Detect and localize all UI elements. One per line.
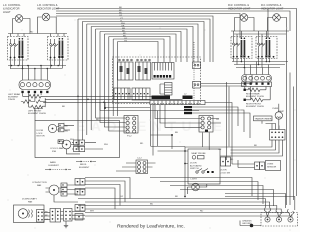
connector strip left oven — [19, 80, 51, 90]
wire oven light leads — [188, 184, 207, 194]
svg-text:WH: WH — [90, 211, 94, 213]
svg-text:LEFT REAR: LEFT REAR — [8, 93, 20, 96]
svg-text:BAKE: BAKE — [50, 161, 56, 164]
wires below right blocks — [232, 58, 288, 68]
svg-text:2350W: 2350W — [8, 99, 16, 101]
relay box 1 — [118, 62, 134, 80]
svg-text:MOTOR: MOTOR — [37, 136, 46, 138]
left edge connector 2 — [75, 189, 85, 196]
wire horizontal right y31 — [231, 30, 289, 32]
label stack small boxes — [184, 106, 192, 114]
wire element leads to board — [43, 96, 182, 102]
wire fan bracket 8 — [109, 37, 170, 132]
svg-text:ELEMENT 1500W: ELEMENT 1500W — [28, 113, 47, 115]
transformer connector block — [270, 130, 286, 141]
wires terminal rows under left blocks — [8, 58, 66, 69]
resistor left rear element — [23, 93, 47, 98]
connector pair mid-left upper — [74, 140, 85, 145]
svg-text:DOOR: DOOR — [37, 130, 44, 132]
control board dashed outline — [113, 57, 201, 104]
convection fan connector — [61, 183, 67, 196]
connector box A — [114, 88, 130, 100]
down draft fan assembly — [14, 205, 45, 223]
svg-text:DOWN DRAFT: DOWN DRAFT — [22, 198, 37, 201]
wire label smudges — [62, 94, 257, 213]
svg-text:& INDICATOR: & INDICATOR — [3, 6, 20, 10]
svg-text:R.R. CONTROL &: R.R. CONTROL & — [228, 3, 249, 7]
svg-text:ELEMENT: ELEMENT — [49, 165, 60, 167]
door lock motor connectors — [59, 124, 69, 133]
terminal squares under strip — [21, 91, 48, 93]
svg-text:LIGHT: LIGHT — [191, 179, 198, 181]
infinite switch R.R. — [231, 37, 252, 59]
wires mid-left connectors — [72, 143, 103, 149]
bottom bus line 1 — [78, 199, 265, 208]
relay box 2 — [136, 62, 151, 80]
wires transformer block down — [185, 140, 283, 156]
svg-text:BU: BU — [65, 130, 68, 132]
wires oven sensor — [232, 120, 255, 168]
label left front element — [28, 111, 47, 116]
wire color labels column — [30, 7, 128, 42]
junction dots below right blocks — [241, 61, 271, 69]
svg-text:GY: GY — [119, 15, 123, 17]
wires convection fan — [54, 185, 85, 202]
indicator lamp L.F. — [13, 15, 27, 23]
wire fan bracket 10 — [118, 42, 158, 117]
label cooling fan — [50, 147, 64, 153]
wires from lower P box — [201, 75, 253, 87]
svg-text:FAN: FAN — [28, 200, 33, 203]
bottom bus line 3 — [78, 206, 277, 209]
svg-text:CONVECTION: CONVECTION — [32, 182, 47, 184]
wires C-12 — [116, 163, 156, 171]
svg-text:RD: RD — [230, 159, 234, 161]
connector box B — [132, 88, 150, 100]
bottom bus line 5 — [85, 212, 288, 215]
right strip lower row — [242, 82, 272, 87]
wire bus line 1 — [56, 9, 297, 61]
wire cluster fanout lines — [192, 103, 225, 114]
bottom bus line 2 — [85, 202, 270, 208]
svg-text:TN: TN — [124, 40, 127, 42]
right staircase wires — [225, 178, 295, 211]
svg-text:BU: BU — [175, 132, 178, 134]
resistor right front element — [246, 87, 270, 102]
strain loop N — [276, 209, 282, 218]
connector P1-1 — [199, 116, 213, 133]
wire fan bracket 5 — [96, 29, 187, 118]
svg-text:FAN: FAN — [37, 184, 42, 187]
wires lower mid-left corners — [85, 178, 130, 210]
svg-text:RD: RD — [140, 143, 144, 145]
oven sensor boxes — [255, 162, 265, 170]
svg-text:L.R. CONTROL &: L.R. CONTROL & — [37, 3, 58, 7]
junction dots on element leads — [77, 96, 106, 110]
resistor left front element — [29, 93, 46, 109]
terminal block dashed box — [261, 213, 298, 227]
svg-text:SWITCH: SWITCH — [190, 168, 199, 170]
svg-text:R.F. CONTROL &: R.F. CONTROL & — [261, 3, 282, 7]
svg-text:OR: OR — [218, 149, 222, 151]
svg-text:RIGHT REAR: RIGHT REAR — [246, 93, 260, 96]
small box P right upper — [193, 62, 201, 69]
svg-text:SENSOR: SENSOR — [267, 166, 277, 168]
wires down draft to bus — [44, 212, 85, 220]
resistor right rear element — [245, 87, 266, 92]
chassis ground — [240, 220, 261, 228]
wire horizontal y33.5 — [8, 33, 67, 35]
svg-text:DOOR: DOOR — [220, 170, 227, 172]
cooling fan connector — [58, 140, 64, 144]
indicator lamp R.F. — [270, 14, 284, 22]
svg-text:WH: WH — [104, 144, 108, 146]
wires right strip feeders — [245, 62, 269, 75]
terminal strip long — [150, 101, 205, 105]
coil element stack — [160, 83, 172, 96]
comb connector — [152, 63, 174, 80]
label R.R. control — [228, 3, 251, 10]
svg-text:ELEMENT: ELEMENT — [79, 167, 90, 169]
wire fan bracket 1 — [78, 19, 210, 150]
junction dots meat probe — [171, 134, 186, 197]
wires into P1-1 — [155, 116, 221, 150]
oven cavity box — [35, 121, 120, 158]
cooling fan motor — [62, 140, 71, 149]
terminal square right front — [244, 99, 246, 101]
left edge connector 1 — [75, 179, 85, 186]
svg-text:LOCK: LOCK — [37, 133, 43, 135]
svg-text:ELEMENT 1500W: ELEMENT 1500W — [246, 106, 265, 108]
door lock switch connectors — [220, 157, 231, 174]
wire drops into switch blocks — [11, 34, 65, 37]
wires mid horizontals lower — [100, 102, 199, 155]
svg-text:GROUND: GROUND — [242, 223, 252, 225]
wire fan bracket 3 — [87, 24, 198, 135]
terminal L2 — [288, 217, 293, 222]
wires transformer block up — [262, 121, 279, 130]
svg-text:LIGHT: LIGHT — [3, 10, 11, 14]
wire fan bracket 9 — [113, 39, 164, 116]
terminal L1 — [265, 217, 270, 222]
svg-text:GY: GY — [216, 119, 220, 121]
bake element — [45, 161, 71, 170]
connector P1-2 — [124, 116, 138, 138]
wires door lock motor — [57, 125, 74, 130]
relay terminal circles — [119, 59, 151, 61]
wire bus line 3 — [56, 14, 240, 39]
wires cluster to lower right — [225, 103, 250, 139]
wire lamp leads right section — [234, 18, 287, 35]
door lock motor — [48, 124, 56, 132]
wire lamp leads left section — [13, 17, 57, 34]
wire drops into right blocks — [234, 31, 267, 39]
junction dots left rows — [11, 65, 59, 70]
svg-text:BROIL: BROIL — [80, 164, 87, 166]
infinite switch L.R. — [48, 37, 69, 61]
indicator lamp R.R. — [238, 14, 252, 22]
label R.F. control — [261, 3, 284, 10]
wires cooling fan — [59, 141, 81, 154]
down draft fan internal connector — [37, 210, 45, 223]
label door lock motor — [37, 130, 46, 138]
strain loop L1 — [265, 208, 271, 217]
wire fan bracket 7 — [104, 34, 176, 127]
oven sensor — [266, 161, 281, 171]
wire oven lamp — [278, 104, 280, 130]
indicator lamp L.R. — [40, 13, 54, 21]
svg-text:OVEN: OVEN — [272, 108, 279, 110]
label L.R. control — [37, 3, 60, 10]
meat probe box — [188, 149, 220, 184]
wires left connector risers — [23, 66, 48, 81]
convection fan motor — [46, 185, 60, 195]
svg-text:WH: WH — [70, 139, 74, 141]
down draft external connector — [50, 209, 61, 223]
filled bar 1 — [152, 96, 171, 100]
label right rear element — [246, 93, 265, 99]
infinite switch L.F. — [8, 37, 29, 61]
wire fan bracket 4 — [91, 27, 193, 131]
small box P right lower — [193, 82, 201, 89]
wire bus line 2 — [56, 11, 290, 31]
svg-text:LOCK SW: LOCK SW — [220, 172, 231, 174]
bottom bus line 6 — [85, 215, 293, 217]
wire bus line 4 — [56, 16, 213, 62]
infinite switch R.F. — [256, 37, 277, 59]
left edge connector 3 — [75, 205, 85, 212]
wires right section drops — [227, 82, 257, 160]
down draft connector 2 — [64, 209, 73, 222]
svg-text:P1-2: P1-2 — [127, 136, 132, 138]
wires terminals up feed — [268, 215, 291, 218]
wire labels down draft — [45, 212, 49, 221]
svg-text:MEAT PROBE: MEAT PROBE — [192, 152, 207, 155]
svg-text:COOL'G FAN: COOL'G FAN — [50, 147, 64, 150]
svg-text:GY: GY — [120, 196, 124, 198]
bottom bus line 4 — [85, 209, 281, 211]
svg-text:RD: RD — [200, 211, 204, 213]
svg-text:OVEN: OVEN — [267, 164, 274, 166]
svg-text:BU: BU — [150, 204, 153, 206]
svg-text:ACTUATED: ACTUATED — [190, 164, 202, 167]
label transformer — [254, 116, 273, 121]
svg-text:L.F. CONTROL: L.F. CONTROL — [3, 3, 21, 7]
label L.F. control — [3, 3, 21, 14]
ground down draft — [64, 221, 68, 228]
svg-text:F5B: F5B — [52, 151, 57, 153]
terminal N — [276, 217, 281, 222]
svg-text:RD: RD — [30, 32, 34, 34]
right edge bus — [287, 31, 297, 205]
oven lamp — [272, 108, 284, 119]
filled bar 2 — [183, 96, 193, 100]
label right front element — [246, 104, 265, 109]
left edge connector 4 — [75, 214, 83, 221]
strain loop L2 — [288, 209, 294, 217]
label convection fan — [32, 182, 47, 187]
dashed vertical center — [193, 42, 195, 100]
svg-text:TRANSFORMER: TRANSFORMER — [255, 118, 272, 121]
label down draft fan — [22, 198, 37, 204]
connector pair mid-left lower — [74, 146, 85, 151]
svg-text:ELEMENT 2100W: ELEMENT 2100W — [246, 96, 265, 98]
oven light lamp — [188, 179, 204, 191]
resistor left mid element — [21, 93, 46, 103]
svg-text:DOOR: DOOR — [190, 163, 197, 165]
connector strip right — [242, 75, 272, 83]
broil element — [76, 161, 96, 169]
wire fan bracket 6 — [100, 32, 181, 123]
svg-text:Rendered by LeadVenture, Inc.: Rendered by LeadVenture, Inc. — [117, 224, 185, 230]
label left rear element — [8, 93, 20, 101]
terminal square right rear — [244, 89, 246, 91]
wire into oven box — [35, 109, 43, 121]
wire fan bracket 2 — [82, 22, 204, 141]
connector C-12 — [136, 158, 148, 174]
wire meat probe feeders — [151, 135, 189, 196]
wires staircase feed from mid — [150, 178, 225, 197]
svg-text:C-12: C-12 — [137, 158, 143, 160]
